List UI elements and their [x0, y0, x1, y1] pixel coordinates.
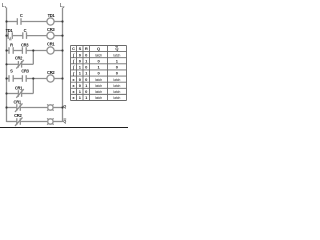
svg-text:C: C	[20, 13, 23, 18]
svg-text:C: C	[72, 46, 75, 51]
svg-text:Q: Q	[115, 46, 118, 51]
rail L2 (right power rail)	[62, 8, 64, 123]
truth table grid	[71, 46, 127, 101]
truth table header row: C S R Q Q-bar	[72, 46, 118, 51]
svg-text:CR1: CR1	[15, 86, 23, 91]
svg-text:CR3: CR3	[21, 42, 29, 47]
svg-text:latch: latch	[113, 90, 120, 94]
junction rung 4 / branch 2	[32, 77, 34, 79]
svg-text:∫: ∫	[72, 59, 75, 64]
contact S (NO, rung 4)	[9, 75, 13, 82]
svg-text:0: 0	[85, 65, 88, 70]
junction right rail / rung 5	[61, 106, 63, 108]
contact CR1 (NC, rung 5)	[15, 103, 23, 112]
svg-text:x: x	[72, 77, 75, 82]
contact R (NO, rung 3)	[9, 47, 13, 54]
svg-text:1: 1	[97, 65, 100, 70]
svg-text:latch: latch	[95, 53, 102, 57]
contact CR3 (NO, rung 4)	[22, 75, 26, 82]
svg-text:L1: L1	[2, 3, 7, 9]
svg-text:latch: latch	[95, 96, 102, 100]
svg-text:0: 0	[116, 71, 119, 76]
svg-text:latch: latch	[95, 78, 102, 82]
svg-text:1: 1	[85, 83, 88, 88]
contact TD1 (NO timed-closed, rung 2)	[8, 32, 12, 40]
lamp Q (pilot light, rung 5)	[47, 104, 53, 110]
truth table row 8: x 1 1 latch latch	[72, 95, 120, 100]
truth table row 5: x 0 0 latch latch	[72, 77, 120, 82]
svg-text:latch: latch	[113, 96, 120, 100]
truth table row 3: pulse 1 0 1 0	[72, 65, 119, 70]
svg-text:0: 0	[79, 77, 82, 82]
svg-text:x: x	[72, 95, 75, 100]
wire rung 5	[7, 107, 63, 109]
truth table row 1: pulse 0 0 latch latch	[72, 52, 121, 57]
coil CR1	[47, 47, 54, 54]
bottom figure border line	[0, 127, 128, 129]
svg-text:∫: ∫	[72, 52, 75, 57]
wire rung 4	[7, 78, 63, 80]
svg-text:0: 0	[85, 52, 88, 57]
contact C (NO, rung 2)	[23, 32, 27, 39]
contact CR2 (NC, branch 1)	[16, 60, 24, 69]
svg-text:S: S	[79, 46, 82, 51]
junction right rail / rung 1	[61, 20, 63, 22]
svg-text:CR1: CR1	[47, 42, 55, 47]
svg-text:CR1: CR1	[14, 100, 22, 105]
svg-text:S: S	[10, 68, 13, 73]
svg-text:0: 0	[79, 58, 82, 63]
contact CR1 (NC, branch 2)	[16, 89, 24, 98]
svg-text:1: 1	[79, 89, 82, 94]
contact C (NO, rung 1)	[17, 18, 21, 25]
svg-text:1: 1	[79, 65, 82, 70]
junction right rail / rung 4	[61, 77, 63, 79]
svg-text:1: 1	[85, 95, 88, 100]
svg-text:x: x	[72, 83, 75, 88]
svg-text:0: 0	[85, 89, 88, 94]
svg-text:L2: L2	[60, 3, 65, 9]
junction left rail / branch 1	[5, 63, 7, 65]
svg-text:latch: latch	[95, 90, 102, 94]
wire rung 1	[7, 21, 63, 23]
wire rung 2	[7, 35, 63, 37]
svg-text:C: C	[24, 28, 27, 33]
svg-text:CR3: CR3	[47, 27, 55, 32]
svg-text:latch: latch	[113, 78, 120, 82]
svg-text:∫: ∫	[72, 71, 75, 76]
wire branch 2 horizontal	[7, 93, 34, 95]
coil CR2	[47, 75, 54, 82]
svg-text:0: 0	[97, 58, 100, 63]
svg-text:CR3: CR3	[21, 68, 29, 73]
svg-text:1: 1	[85, 58, 88, 63]
junction right rail / rung 3	[61, 49, 63, 51]
svg-text:x: x	[72, 89, 75, 94]
junction left rail / rung 5	[5, 106, 7, 108]
svg-text:CR2: CR2	[14, 113, 22, 118]
svg-text:∫: ∫	[72, 65, 75, 70]
svg-text:1: 1	[79, 95, 82, 100]
junction left rail / rung 3	[5, 49, 7, 51]
truth table row 6: x 0 1 latch latch	[72, 83, 120, 88]
svg-text:latch: latch	[113, 84, 120, 88]
lamp Q-bar (pilot light, rung 6)	[47, 118, 53, 124]
truth table row 2: pulse 0 1 0 1	[72, 58, 119, 63]
truth table row 4: pulse 1 1 0 0	[72, 71, 119, 76]
junction left rail / rung 1	[5, 20, 7, 22]
wire branch 1 horizontal	[7, 63, 34, 65]
svg-text:TD1: TD1	[6, 28, 14, 33]
junction left rail / branch 2	[5, 92, 7, 94]
svg-text:0: 0	[85, 77, 88, 82]
svg-text:CR2: CR2	[47, 70, 55, 75]
svg-text:R: R	[85, 46, 88, 51]
junction left rail / rung 2	[5, 35, 7, 37]
svg-text:0: 0	[116, 65, 119, 70]
svg-text:0: 0	[79, 52, 82, 57]
svg-text:latch: latch	[95, 84, 102, 88]
svg-text:R: R	[10, 42, 13, 47]
svg-text:Q: Q	[63, 119, 66, 123]
truth table row 7: x 1 0 latch latch	[72, 89, 120, 94]
contact CR2 (NC, rung 6)	[15, 117, 23, 126]
rail L1 (left power rail)	[6, 8, 8, 123]
svg-text:0: 0	[97, 71, 100, 76]
wire branch 1 vertical	[32, 51, 34, 65]
svg-text:0: 0	[79, 83, 82, 88]
svg-text:Q: Q	[97, 46, 100, 51]
coil CR3	[47, 32, 54, 39]
svg-text:CR2: CR2	[15, 55, 23, 60]
svg-text:latch: latch	[113, 53, 120, 57]
wire rung 3	[7, 50, 63, 52]
wire branch 2 vertical	[32, 79, 34, 94]
svg-text:TD1: TD1	[48, 13, 56, 18]
svg-text:1: 1	[85, 71, 88, 76]
junction left rail / rung 4	[5, 77, 7, 79]
junction rung 3 / branch 1	[32, 49, 34, 51]
svg-text:Q: Q	[63, 105, 66, 109]
label Q-bar (rung 6 output)	[63, 119, 66, 123]
coil TD1	[47, 18, 54, 25]
svg-text:1: 1	[116, 58, 119, 63]
svg-text:1: 1	[79, 71, 82, 76]
wire rung 6	[7, 121, 63, 123]
contact CR3 (NO, rung 3)	[22, 47, 26, 54]
junction right rail / rung 2	[61, 35, 63, 37]
